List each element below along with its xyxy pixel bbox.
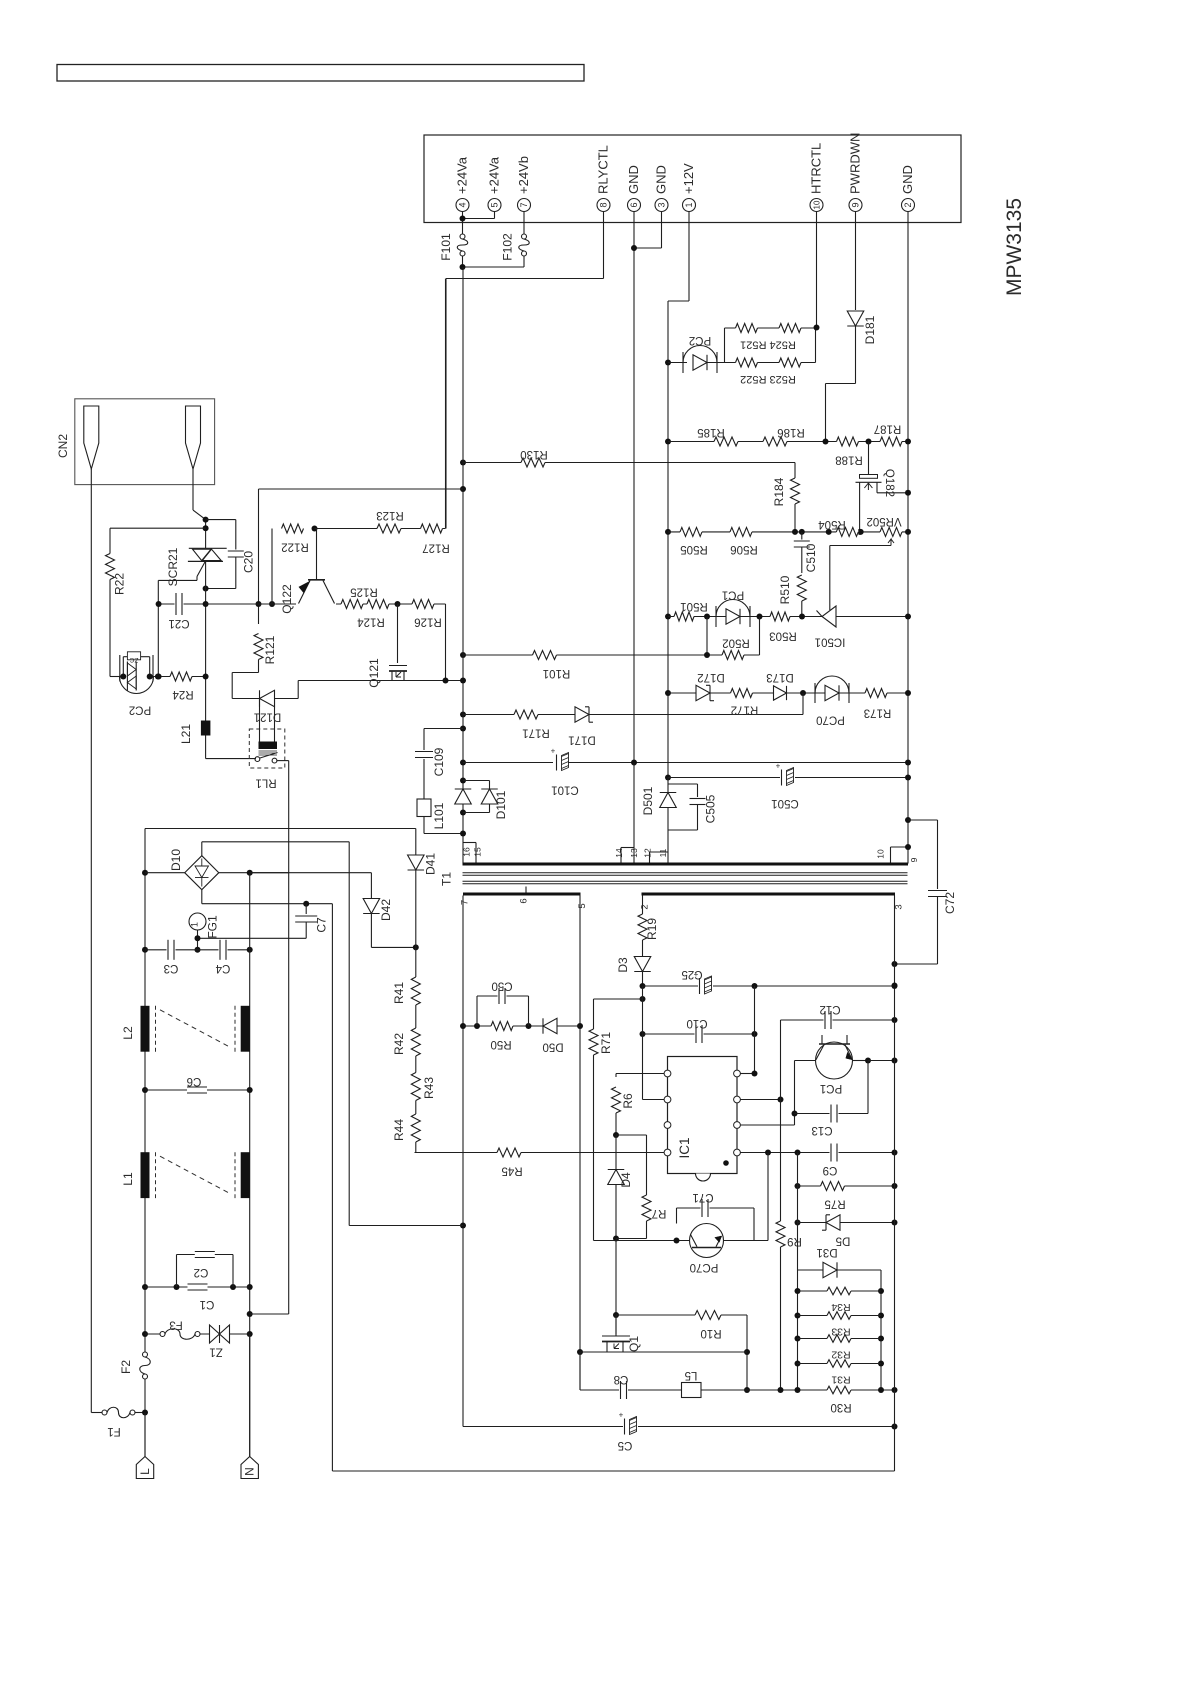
svg-text:R6: R6 bbox=[621, 1093, 635, 1109]
svg-text:N: N bbox=[243, 1467, 257, 1476]
svg-text:C25: C25 bbox=[681, 968, 702, 980]
svg-text:R45: R45 bbox=[501, 1165, 522, 1177]
svg-text:15: 15 bbox=[473, 847, 483, 857]
svg-text:D50: D50 bbox=[542, 1041, 563, 1053]
svg-text:C12: C12 bbox=[819, 1003, 840, 1015]
svg-text:3: 3 bbox=[894, 904, 905, 909]
svg-text:SCR21: SCR21 bbox=[166, 547, 180, 586]
svg-text:C7: C7 bbox=[315, 917, 329, 933]
svg-text:R30: R30 bbox=[830, 1401, 851, 1413]
svg-text:F3: F3 bbox=[169, 1319, 182, 1331]
svg-text:14: 14 bbox=[614, 848, 624, 858]
svg-text:RL1: RL1 bbox=[255, 777, 276, 789]
svg-text:C5: C5 bbox=[618, 1439, 633, 1451]
svg-text:C71: C71 bbox=[692, 1191, 713, 1203]
svg-text:R50: R50 bbox=[490, 1038, 511, 1050]
svg-text:R186: R186 bbox=[777, 426, 805, 438]
svg-text:R502: R502 bbox=[722, 637, 750, 649]
svg-text:C50: C50 bbox=[491, 980, 512, 992]
svg-text:R504: R504 bbox=[818, 518, 846, 530]
svg-text:10: 10 bbox=[813, 200, 822, 209]
svg-text:IC501: IC501 bbox=[815, 636, 846, 648]
svg-text:1: 1 bbox=[684, 202, 694, 207]
svg-text:R75: R75 bbox=[824, 1198, 845, 1210]
svg-text:D501: D501 bbox=[641, 786, 655, 815]
svg-text:L1: L1 bbox=[121, 1172, 135, 1186]
svg-text:+24Va: +24Va bbox=[455, 156, 470, 194]
svg-text:R188: R188 bbox=[835, 454, 863, 466]
svg-text:R19: R19 bbox=[645, 918, 659, 940]
svg-text:12: 12 bbox=[643, 848, 653, 858]
svg-text:R127: R127 bbox=[422, 542, 450, 554]
svg-text:C72: C72 bbox=[943, 892, 957, 914]
svg-text:F101: F101 bbox=[439, 233, 453, 261]
svg-text:R31: R31 bbox=[831, 1373, 850, 1385]
svg-text:F1: F1 bbox=[107, 1425, 120, 1437]
svg-text:2: 2 bbox=[903, 202, 913, 207]
svg-text:R22: R22 bbox=[113, 573, 127, 595]
svg-text:D10: D10 bbox=[169, 849, 183, 871]
svg-text:R24: R24 bbox=[172, 688, 194, 700]
svg-text:10: 10 bbox=[876, 849, 886, 859]
svg-text:R130: R130 bbox=[520, 448, 548, 460]
svg-text:13: 13 bbox=[629, 848, 639, 858]
svg-text:R506: R506 bbox=[730, 543, 758, 555]
svg-text:C3: C3 bbox=[164, 962, 179, 974]
svg-text:F102: F102 bbox=[501, 233, 515, 261]
svg-text:PC70: PC70 bbox=[690, 1261, 719, 1273]
svg-text:R101: R101 bbox=[543, 667, 571, 679]
svg-text:C8: C8 bbox=[614, 1373, 629, 1385]
svg-text:D42: D42 bbox=[379, 899, 393, 921]
svg-text:R9: R9 bbox=[787, 1235, 802, 1247]
svg-text:D173: D173 bbox=[766, 671, 794, 683]
svg-text:HTRCTL: HTRCTL bbox=[809, 143, 824, 194]
svg-text:FG1: FG1 bbox=[206, 915, 220, 939]
svg-text:C501: C501 bbox=[771, 797, 799, 809]
svg-text:R524 R521: R524 R521 bbox=[740, 339, 796, 351]
svg-text:PC1: PC1 bbox=[820, 1082, 842, 1094]
svg-text:4: 4 bbox=[458, 202, 468, 207]
svg-text:9: 9 bbox=[851, 202, 861, 207]
svg-text:D121: D121 bbox=[254, 711, 282, 723]
svg-text:D31: D31 bbox=[816, 1246, 837, 1258]
svg-text:R124: R124 bbox=[357, 616, 385, 628]
svg-text:PC1: PC1 bbox=[722, 589, 744, 601]
svg-text:R173: R173 bbox=[864, 707, 892, 719]
svg-text:PC70: PC70 bbox=[816, 714, 845, 726]
svg-text:PC2: PC2 bbox=[689, 334, 711, 346]
svg-text:+: + bbox=[776, 762, 781, 771]
svg-text:R7: R7 bbox=[652, 1207, 667, 1219]
svg-text:R33: R33 bbox=[831, 1325, 850, 1337]
svg-text:R42: R42 bbox=[392, 1033, 406, 1055]
svg-text:R501: R501 bbox=[680, 600, 708, 612]
svg-text:6: 6 bbox=[519, 898, 530, 903]
svg-text:GND: GND bbox=[654, 165, 669, 194]
svg-text:+24Va: +24Va bbox=[487, 156, 502, 194]
svg-text:+24Vb: +24Vb bbox=[516, 156, 531, 194]
svg-text:D4: D4 bbox=[619, 1172, 633, 1188]
svg-text:C101: C101 bbox=[551, 784, 579, 796]
svg-text:2: 2 bbox=[640, 904, 651, 909]
svg-text:1: 1 bbox=[190, 922, 200, 927]
svg-text:PWRDWN: PWRDWN bbox=[848, 133, 863, 194]
svg-text:R510: R510 bbox=[778, 575, 792, 604]
svg-text:R503: R503 bbox=[769, 630, 797, 642]
svg-text:Q122: Q122 bbox=[280, 584, 294, 614]
svg-text:R121: R121 bbox=[263, 635, 277, 664]
svg-text:R171: R171 bbox=[522, 727, 550, 739]
svg-text:Q182: Q182 bbox=[883, 469, 895, 497]
svg-text:R123: R123 bbox=[376, 509, 404, 521]
svg-text:R41: R41 bbox=[392, 982, 406, 1004]
svg-text:D181: D181 bbox=[863, 315, 877, 344]
svg-text:C2: C2 bbox=[194, 1266, 209, 1278]
svg-text:R43: R43 bbox=[422, 1077, 436, 1099]
svg-text:R44: R44 bbox=[392, 1119, 406, 1141]
svg-text:RLYCTL: RLYCTL bbox=[596, 145, 611, 194]
svg-text:R172: R172 bbox=[731, 704, 759, 716]
svg-text:R505: R505 bbox=[680, 543, 708, 555]
svg-text:R523 R522: R523 R522 bbox=[740, 373, 796, 385]
svg-text:C20: C20 bbox=[242, 551, 256, 573]
svg-text:C4: C4 bbox=[215, 962, 230, 974]
svg-text:L101: L101 bbox=[432, 802, 446, 829]
svg-text:CN2: CN2 bbox=[56, 434, 70, 458]
svg-text:D101: D101 bbox=[494, 790, 508, 819]
svg-text:L: L bbox=[138, 1468, 152, 1475]
svg-text:R126: R126 bbox=[414, 616, 442, 628]
svg-text:F2: F2 bbox=[119, 1360, 133, 1374]
svg-text:5: 5 bbox=[490, 202, 500, 207]
svg-text:D41: D41 bbox=[424, 853, 438, 875]
svg-text:PC2: PC2 bbox=[129, 704, 151, 716]
svg-text:Q121: Q121 bbox=[367, 658, 381, 688]
svg-text:MPW3135: MPW3135 bbox=[1003, 198, 1026, 296]
svg-text:L2: L2 bbox=[121, 1026, 135, 1040]
svg-text:7: 7 bbox=[519, 202, 529, 207]
svg-text:C510: C510 bbox=[804, 543, 818, 572]
svg-text:+: + bbox=[551, 747, 556, 756]
svg-text:R125: R125 bbox=[350, 586, 378, 598]
svg-text:R34: R34 bbox=[831, 1301, 850, 1313]
svg-text:R185: R185 bbox=[697, 426, 725, 438]
svg-text:R184: R184 bbox=[772, 477, 786, 506]
svg-text:C21: C21 bbox=[168, 617, 189, 629]
svg-text:Q1: Q1 bbox=[627, 1336, 641, 1352]
svg-text:R71: R71 bbox=[599, 1032, 613, 1054]
svg-text:D3: D3 bbox=[616, 957, 630, 973]
svg-text:D172: D172 bbox=[697, 671, 725, 683]
svg-text:C6: C6 bbox=[187, 1075, 202, 1087]
svg-text:9: 9 bbox=[909, 857, 919, 862]
svg-text:VR502: VR502 bbox=[866, 515, 901, 527]
svg-text:R122: R122 bbox=[281, 541, 309, 553]
svg-text:C1: C1 bbox=[200, 1298, 215, 1310]
svg-text:6: 6 bbox=[629, 202, 639, 207]
svg-text:8: 8 bbox=[599, 202, 609, 207]
svg-text:R32: R32 bbox=[831, 1348, 850, 1360]
svg-text:C10: C10 bbox=[686, 1017, 707, 1029]
svg-text:L5: L5 bbox=[685, 1369, 698, 1381]
svg-text:GND: GND bbox=[900, 165, 915, 194]
svg-text:R187: R187 bbox=[874, 423, 902, 435]
svg-text:+12V: +12V bbox=[681, 163, 696, 194]
svg-text:11: 11 bbox=[658, 848, 668, 857]
svg-text:C505: C505 bbox=[704, 794, 718, 823]
svg-text:+: + bbox=[619, 1411, 624, 1420]
svg-text:ZC: ZC bbox=[129, 656, 138, 663]
svg-text:R10: R10 bbox=[700, 1327, 721, 1339]
svg-text:T1: T1 bbox=[440, 872, 454, 886]
svg-text:IC1: IC1 bbox=[677, 1137, 692, 1158]
svg-text:16: 16 bbox=[462, 847, 472, 857]
svg-text:GND: GND bbox=[626, 165, 641, 194]
svg-text:D5: D5 bbox=[836, 1235, 851, 1247]
svg-text:C9: C9 bbox=[823, 1164, 838, 1176]
svg-text:3: 3 bbox=[657, 202, 667, 207]
svg-text:C13: C13 bbox=[811, 1124, 832, 1136]
svg-text:L21: L21 bbox=[179, 724, 193, 744]
svg-text:Z1: Z1 bbox=[209, 1346, 222, 1358]
svg-text:5: 5 bbox=[577, 903, 588, 908]
svg-text:D171: D171 bbox=[568, 734, 596, 746]
svg-text:C109: C109 bbox=[432, 747, 446, 776]
svg-text:7: 7 bbox=[460, 900, 471, 905]
